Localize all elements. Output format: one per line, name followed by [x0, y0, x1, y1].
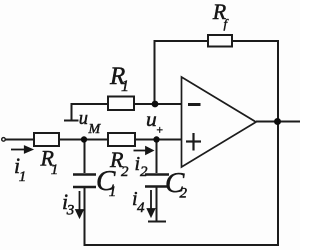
svg-text:1: 1 — [121, 78, 129, 95]
svg-text:2: 2 — [180, 186, 188, 202]
svg-text:1: 1 — [109, 184, 117, 200]
svg-text:+: + — [156, 125, 164, 137]
svg-text:2: 2 — [140, 164, 148, 180]
svg-text:4: 4 — [137, 200, 145, 216]
svg-text:2: 2 — [121, 164, 129, 180]
svg-text:u: u — [79, 109, 88, 129]
svg-text:1: 1 — [51, 162, 59, 178]
svg-text:1: 1 — [19, 169, 27, 185]
svg-text:M: M — [88, 122, 102, 137]
svg-text:3: 3 — [66, 203, 75, 219]
